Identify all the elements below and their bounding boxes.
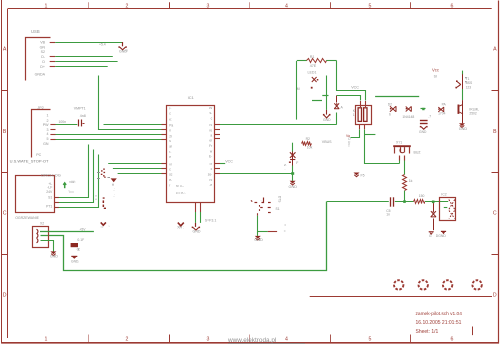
svg-text:cv: cv (209, 106, 213, 110)
svg-text:1: 1 (47, 114, 49, 118)
svg-text:IC1: IC1 (188, 95, 195, 100)
svg-text:6: 6 (451, 3, 454, 9)
svg-text:GND: GND (119, 49, 127, 53)
svg-text:'/==: '/== (69, 190, 74, 194)
svg-text:16.10.2005 21:01:51: 16.10.2005 21:01:51 (416, 320, 462, 326)
svg-text:=: = (284, 223, 286, 227)
svg-text:USB: USB (31, 29, 40, 34)
svg-text:D+: D+ (40, 65, 45, 69)
svg-text:IC2: IC2 (441, 192, 446, 196)
svg-text:-e: -e (209, 183, 212, 187)
svg-text:GND: GND (459, 127, 468, 131)
svg-text:PW: PW (43, 123, 49, 127)
svg-text:GND.: GND. (71, 260, 79, 264)
svg-text:4n8: 4n8 (80, 114, 86, 118)
svg-text:S1: S1 (276, 207, 280, 211)
svg-text:Pa: Pa (169, 124, 173, 128)
svg-text:re: re (209, 129, 212, 133)
svg-text:D: D (42, 60, 45, 64)
svg-text:rc: rc (210, 178, 213, 182)
svg-text:GNDA: GNDA (35, 73, 46, 77)
svg-text:X?1: X?1 (396, 140, 402, 144)
svg-text:+5V: +5V (80, 228, 87, 232)
svg-text:a: a (210, 134, 212, 138)
svg-text:e-: e- (169, 178, 172, 182)
svg-text:..: .. (284, 167, 286, 171)
svg-text:r-: r- (169, 150, 171, 154)
svg-text:D: D (3, 293, 7, 299)
svg-text:Sheet: 1/1: Sheet: 1/1 (416, 329, 439, 335)
svg-text:XH :: XH : (177, 226, 184, 230)
svg-text:GND: GND (419, 130, 427, 134)
svg-text:5: 5 (369, 336, 372, 342)
svg-text:OGRZEWANIE: OGRZEWANIE (15, 216, 39, 220)
svg-text:0.1F: 0.1F (77, 238, 84, 242)
svg-text:GND: GND (50, 254, 58, 258)
svg-text:GND: GND (193, 230, 201, 234)
svg-text:A: A (3, 47, 7, 53)
svg-text:GND: GND (289, 185, 298, 189)
svg-text:4: 4 (47, 132, 49, 136)
svg-text:1n: 1n (386, 213, 390, 217)
svg-text::.: :. (109, 224, 111, 228)
svg-text:1: 1 (353, 113, 355, 117)
svg-text:PT1: PT1 (46, 204, 52, 208)
svg-text:v##:: v##: (69, 180, 75, 184)
svg-text:e:: e: (169, 118, 172, 122)
svg-text:e: e (169, 155, 171, 159)
svg-text:G: G (429, 234, 432, 238)
svg-text:X2: X2 (40, 222, 44, 226)
svg-text:5: 5 (369, 3, 372, 9)
svg-text:rv. c--: rv. c-- (176, 184, 184, 188)
svg-text:2502: 2502 (469, 112, 477, 116)
svg-text:c:= e-:.: c:= e-:. (176, 191, 186, 195)
svg-text:BUZ: BUZ (414, 151, 422, 155)
svg-text:GND: GND (323, 118, 331, 122)
svg-text:6: 6 (451, 336, 454, 342)
svg-text:F5: F5 (361, 174, 365, 178)
svg-text:zamek-pilot.sch v1.04: zamek-pilot.sch v1.04 (416, 311, 463, 317)
svg-text:DTS: DTS (278, 196, 282, 202)
svg-text:1N4148: 1N4148 (402, 115, 414, 119)
svg-text:b: b (389, 112, 391, 116)
svg-text:.:: .: (439, 208, 441, 212)
svg-text:47E: 47E (310, 64, 317, 68)
svg-text:ze-: ze- (208, 173, 212, 177)
svg-text:2: 2 (126, 336, 129, 342)
svg-text:B: B (493, 129, 497, 135)
svg-text:S=F3.1: S=F3.1 (205, 219, 217, 223)
svg-text:VCC: VCC (351, 86, 359, 90)
svg-text:10k: 10k (307, 145, 313, 149)
svg-text:M: M (297, 87, 300, 91)
svg-text:F: F (296, 161, 298, 165)
svg-text:T: T (348, 144, 350, 148)
svg-text:GN: GN (43, 142, 49, 146)
svg-text:VBUS: VBUS (322, 140, 332, 144)
svg-text:5: 5 (47, 137, 49, 141)
svg-text:LED1: LED1 (308, 70, 317, 74)
svg-text:r-: r- (169, 107, 171, 111)
svg-text:DGND: DGND (436, 234, 447, 238)
svg-text:100n: 100n (59, 120, 67, 124)
svg-text:S2: S2 (41, 50, 45, 54)
svg-text:2: 2 (126, 3, 129, 9)
svg-text:-LF: -LF (47, 186, 52, 190)
svg-text:1: 1 (45, 3, 48, 9)
svg-text:.:: .: (113, 188, 115, 192)
svg-text:150: 150 (419, 194, 425, 198)
svg-text:123: 123 (466, 85, 472, 89)
svg-text:S1: S1 (48, 195, 52, 199)
svg-text:D: D (493, 293, 497, 299)
svg-text:s-: s- (210, 111, 213, 115)
svg-text:4: 4 (285, 3, 288, 9)
svg-text:E-: E- (209, 155, 212, 159)
svg-text:D2: D2 (388, 102, 392, 106)
svg-text:.:: .: (113, 194, 115, 198)
svg-text:1: 1 (45, 336, 48, 342)
svg-text:PC: PC (36, 153, 41, 157)
svg-text:SI: SI (434, 75, 437, 79)
svg-text:Vcc: Vcc (432, 68, 439, 73)
svg-text:.7: .7 (428, 115, 431, 119)
svg-text:1k: 1k (409, 179, 413, 183)
svg-text:rc: rc (210, 123, 213, 127)
svg-text:R2: R2 (306, 137, 310, 141)
svg-text:1704: 1704 (438, 112, 446, 116)
svg-text:n: n (169, 129, 171, 133)
svg-text:+5.4: +5.4 (99, 43, 106, 47)
svg-text:VB: VB (40, 41, 45, 45)
svg-text:GND: GND (254, 238, 263, 242)
svg-text:=: = (284, 229, 286, 233)
svg-text:sc: sc (169, 173, 173, 177)
svg-text:VMPT1: VMPT1 (74, 107, 86, 111)
svg-text:3: 3 (207, 3, 210, 9)
svg-text:4: 4 (285, 336, 288, 342)
svg-text:DRCI-LOG: DRCI-LOG (41, 173, 61, 178)
svg-text:-: - (261, 198, 262, 202)
svg-text:3: 3 (207, 336, 210, 342)
svg-text:VCC: VCC (225, 160, 233, 164)
svg-text:24V: 24V (46, 190, 53, 194)
svg-text::=: := (101, 225, 104, 229)
svg-text:B: B (3, 129, 7, 135)
svg-text:C: C (3, 211, 7, 217)
svg-text:A: A (493, 47, 497, 53)
svg-text:U.S.WATE_STOP-OT: U.S.WATE_STOP-OT (10, 159, 49, 164)
svg-text:C: C (493, 211, 497, 217)
